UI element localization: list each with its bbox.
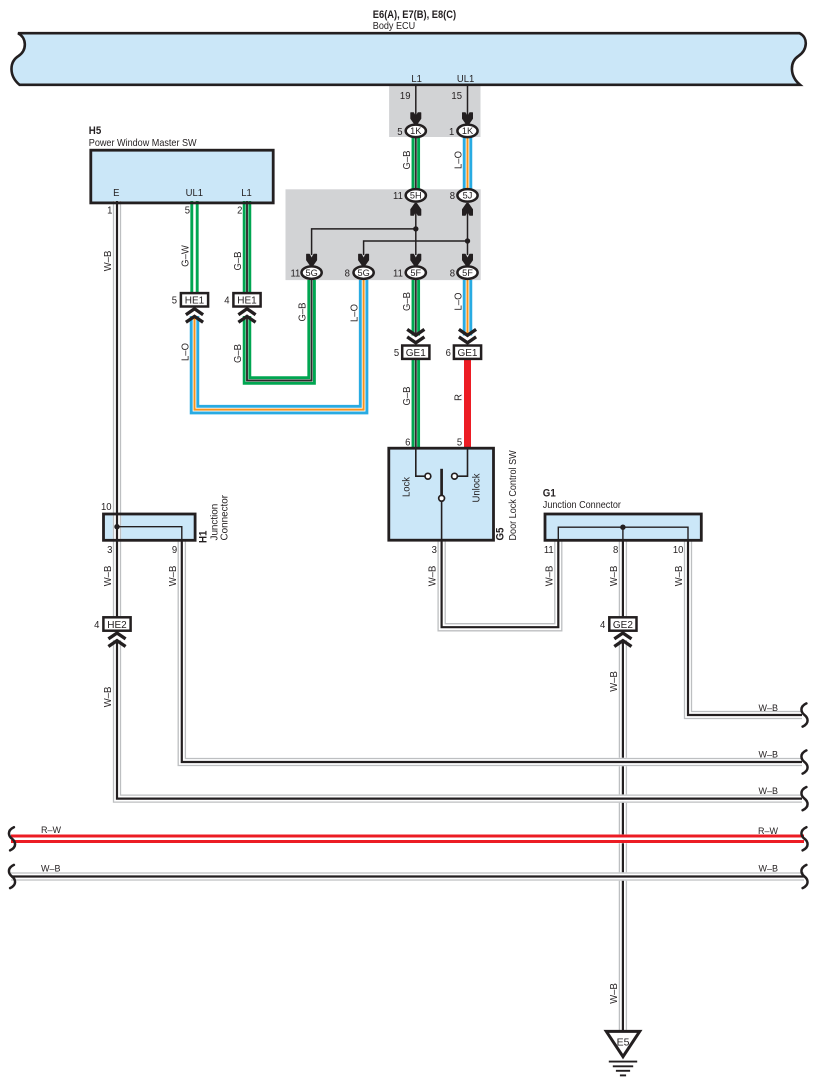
svg-text:W–B: W–B [758, 863, 778, 873]
svg-text:2: 2 [237, 205, 242, 216]
svg-text:E: E [113, 188, 120, 199]
svg-text:L–O: L–O [453, 151, 464, 169]
svg-text:HE1: HE1 [237, 296, 257, 307]
svg-text:5J: 5J [463, 191, 473, 201]
arrow into 5J [463, 204, 473, 216]
svg-text:11: 11 [393, 268, 403, 279]
G5 switch lever [440, 469, 443, 495]
svg-text:W–B: W–B [758, 749, 778, 759]
junction node on 5H line [413, 226, 418, 231]
svg-text:W–B: W–B [103, 251, 114, 272]
connector 1K pin1 [457, 125, 477, 138]
svg-text:R: R [453, 394, 464, 401]
connector 1K pin5 [406, 125, 426, 138]
svg-text:L–O: L–O [349, 304, 360, 322]
wire W-B HE2 to right break [117, 640, 802, 799]
G1 junction dot [620, 525, 625, 530]
svg-text:1K: 1K [410, 126, 422, 136]
svg-text:W–B: W–B [758, 703, 778, 713]
chevrons into GE1 pin5 [407, 329, 424, 335]
wire G-B HE1 to 5G pin11 [247, 280, 312, 381]
svg-text:15: 15 [451, 91, 462, 102]
connector HE1 pin4 [233, 293, 260, 306]
svg-text:5F: 5F [410, 268, 421, 278]
svg-text:HE1: HE1 [185, 296, 205, 307]
svg-text:E5: E5 [617, 1037, 630, 1049]
Body ECU band E6/E7/E8 [11, 33, 805, 85]
G1 Junction Connector box fill [545, 514, 701, 540]
svg-text:8: 8 [450, 268, 455, 279]
H1 Junction Connector box fill [104, 514, 196, 540]
svg-text:L–O: L–O [453, 292, 464, 310]
svg-text:G1: G1 [543, 488, 556, 500]
svg-text:W–B: W–B [168, 566, 179, 587]
svg-text:5G: 5G [357, 268, 369, 278]
wire W-B GE2 to ground E5 [619, 640, 627, 1032]
break symbol right of W-B (H1 pin9) [801, 750, 807, 773]
wire W-B G1 pin8 to GE2 [619, 539, 627, 618]
svg-text:W–B: W–B [103, 566, 114, 587]
H5 box border [91, 150, 273, 203]
svg-text:UL1: UL1 [457, 74, 474, 85]
svg-text:W–B: W–B [103, 687, 114, 708]
svg-text:H5: H5 [89, 126, 102, 138]
svg-text:5: 5 [172, 295, 178, 306]
svg-text:W–B: W–B [427, 566, 438, 587]
svg-text:Lock: Lock [401, 477, 412, 497]
svg-text:1: 1 [449, 127, 454, 138]
svg-text:11: 11 [544, 545, 554, 556]
chevrons into GE2 [614, 633, 631, 639]
arrow into 1K pin1 [463, 113, 473, 125]
svg-text:L–O: L–O [180, 343, 191, 361]
G5 box border [389, 448, 494, 540]
svg-text:G–B: G–B [402, 150, 413, 169]
G5 Door Lock Control SW box fill [389, 448, 494, 540]
wire L-O 1K to 5J [463, 137, 473, 189]
G1 internal stub to pin8 [622, 527, 624, 539]
wire G-B GE1 to G5 pin6 [412, 359, 420, 449]
svg-text:5: 5 [397, 127, 403, 138]
chevrons into HE1 pin5 [186, 309, 203, 315]
connector GE1 pin6 [454, 346, 481, 359]
connector 5H [406, 189, 426, 202]
wire W-B G5 pin3 to G1 pin11 [442, 539, 559, 627]
wire G-W H5 pin5 to HE1 [190, 201, 198, 294]
svg-text:Door Lock Control SW: Door Lock Control SW [508, 449, 520, 540]
wire 5H to 5F vertical [415, 208, 417, 255]
svg-text:G–B: G–B [402, 386, 413, 405]
wire R GE1 to G5 pin5 [464, 359, 471, 449]
break symbol right of W-B (G1 pin10) [801, 703, 807, 726]
connector 5F pin11 [406, 266, 426, 279]
svg-text:11: 11 [393, 191, 403, 202]
connector HE2 pin4 [103, 617, 130, 630]
wire G-B 5F to GE1 [412, 280, 420, 336]
svg-text:E6(A), E7(B), E8(C): E6(A), E7(B), E8(C) [373, 10, 456, 22]
arrow into 5F pin11 [411, 254, 421, 266]
svg-text:W–B: W–B [758, 786, 778, 796]
svg-text:W–B: W–B [674, 566, 685, 587]
svg-text:G–B: G–B [233, 251, 244, 270]
wire W-B bus across page [11, 872, 804, 880]
svg-text:4: 4 [224, 295, 230, 306]
svg-text:8: 8 [450, 191, 455, 202]
svg-text:W–B: W–B [609, 566, 620, 587]
wire R-W bus across page [11, 834, 804, 843]
svg-text:L1: L1 [411, 74, 422, 85]
wire W-B H5 pin E down through H1 to HE2 [113, 201, 121, 618]
svg-text:GE1: GE1 [406, 348, 426, 359]
svg-text:4: 4 [600, 620, 606, 631]
svg-text:5F: 5F [462, 268, 473, 278]
svg-text:5G: 5G [305, 268, 317, 278]
G1 internal bus pin11 to pin10 [558, 527, 688, 539]
svg-text:G–W: G–W [180, 244, 191, 266]
svg-text:G–B: G–B [233, 344, 244, 363]
svg-text:3: 3 [107, 545, 112, 556]
H1 junction dot [114, 524, 119, 529]
svg-text:19: 19 [400, 91, 411, 102]
ground E5 triangle [606, 1031, 639, 1056]
wire G-B H5 pin2 to HE1 [243, 201, 251, 294]
break symbol right of W-B (HE2) [801, 787, 807, 810]
break symbol right of R-W bus [801, 827, 807, 850]
svg-text:3: 3 [432, 545, 437, 556]
connector 5J [457, 189, 477, 202]
shade box around 1K connectors [389, 86, 480, 137]
break symbol left of R-W bus [9, 827, 15, 850]
svg-text:6: 6 [446, 348, 451, 359]
svg-text:5: 5 [394, 348, 400, 359]
svg-text:Connector: Connector [219, 494, 230, 540]
wire W-B G1 pin10 to right break [688, 539, 802, 715]
wire L-O HE1 to 5G pin8 [195, 280, 364, 410]
svg-text:8: 8 [613, 545, 618, 556]
svg-text:L1: L1 [241, 188, 252, 199]
svg-text:Unlock: Unlock [471, 473, 482, 502]
G5 lock contact branch [416, 449, 425, 476]
svg-text:5: 5 [185, 205, 191, 216]
wire branch to 5G pin8 [364, 241, 468, 255]
H5 Power Window Master SW box fill [91, 150, 273, 203]
svg-text:4: 4 [94, 620, 100, 631]
connector GE2 pin4 [609, 617, 636, 630]
ground bars [609, 1061, 637, 1063]
arrow into 1K pin5 [411, 113, 421, 125]
shade box around 5G/5H/5J/5F connectors [286, 189, 481, 280]
break symbol right of W-B bus [801, 865, 807, 888]
connector GE1 pin5 [402, 346, 429, 359]
svg-text:W–B: W–B [41, 863, 61, 873]
wire ECU pin19 L1 drop [415, 84, 417, 119]
connector 5G pin11 [302, 266, 322, 279]
svg-text:5: 5 [457, 437, 463, 448]
svg-text:G–B: G–B [297, 302, 308, 321]
svg-text:Body ECU: Body ECU [373, 21, 415, 33]
svg-text:W–B: W–B [544, 566, 555, 587]
arrow into 5G pin11 [307, 254, 317, 266]
connector 5F pin8 [457, 266, 477, 279]
svg-text:10: 10 [673, 545, 684, 556]
svg-text:5H: 5H [410, 191, 422, 201]
svg-text:11: 11 [290, 268, 300, 279]
svg-text:Power Window Master SW: Power Window Master SW [89, 137, 198, 149]
arrow into 5G pin8 [359, 254, 369, 266]
svg-text:G5: G5 [495, 527, 507, 540]
wire G-B 1K to 5H [412, 137, 420, 189]
H1 box border [104, 514, 196, 540]
break symbol left of W-B bus [9, 865, 15, 888]
svg-text:1K: 1K [462, 126, 474, 136]
wire branch to 5G pin11 [312, 229, 416, 255]
wire ECU pin15 UL1 drop [467, 84, 469, 119]
G1 box border [545, 514, 701, 540]
svg-text:1: 1 [107, 205, 112, 216]
svg-text:8: 8 [345, 268, 350, 279]
chevrons into HE2 [108, 633, 125, 639]
arrow into 5F pin8 [463, 254, 473, 266]
svg-text:UL1: UL1 [186, 188, 203, 199]
svg-text:R–W: R–W [41, 825, 61, 835]
svg-text:Junction Connector: Junction Connector [543, 500, 622, 512]
svg-text:H1: H1 [198, 530, 210, 543]
chevrons into HE1 pin4 [238, 309, 255, 315]
wire 5J to 5F vertical [467, 208, 469, 255]
svg-text:6: 6 [405, 437, 410, 448]
arrow into 5H [411, 204, 421, 216]
wire W-B H1 pin9 to right break [182, 539, 802, 762]
G5 lever to pin3 [441, 501, 443, 539]
svg-text:GE1: GE1 [457, 348, 477, 359]
chevrons into GE1 pin6 [459, 329, 476, 335]
H1 internal bus to pin9 [117, 527, 182, 539]
svg-text:R–W: R–W [758, 826, 778, 836]
wire L-O 5F to GE1 [463, 280, 473, 336]
connector 5G pin8 [354, 266, 374, 279]
svg-text:GE2: GE2 [613, 620, 633, 631]
svg-text:W–B: W–B [609, 671, 620, 692]
svg-text:10: 10 [101, 502, 112, 513]
svg-text:HE2: HE2 [107, 620, 127, 631]
svg-text:9: 9 [172, 545, 177, 556]
svg-text:W–B: W–B [609, 983, 620, 1004]
svg-text:G–B: G–B [402, 292, 413, 311]
G5 unlock contact branch [458, 449, 468, 476]
connector HE1 pin5 [181, 293, 208, 306]
junction node on 5J line [465, 238, 470, 243]
